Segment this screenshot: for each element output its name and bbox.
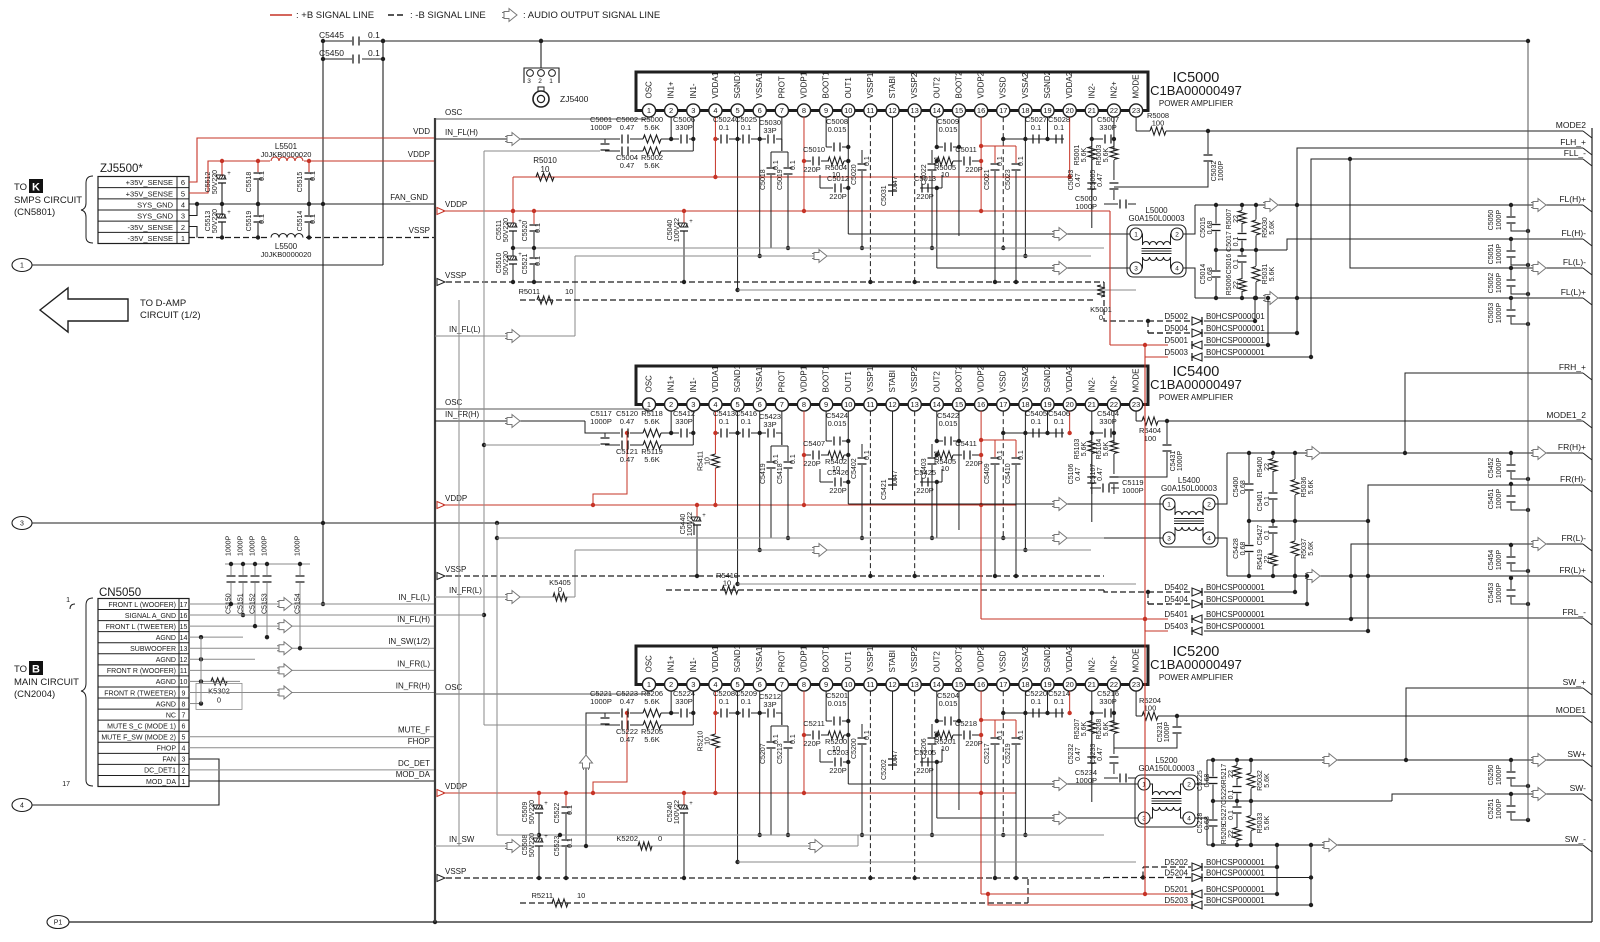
- svg-text:5.6K: 5.6K: [1103, 441, 1110, 456]
- svg-text:7: 7: [780, 106, 784, 115]
- svg-text:C5151: C5151: [238, 593, 245, 614]
- svg-text:5.6K: 5.6K: [1269, 266, 1276, 281]
- capacitor C5423 33P: [760, 432, 766, 434]
- svg-text:VDDP: VDDP: [445, 200, 467, 209]
- svg-text:TO: TO: [14, 664, 27, 675]
- svg-text:6: 6: [758, 106, 762, 115]
- capacitor C5021 0.1 vertical: [994, 146, 996, 163]
- svg-text:OSC: OSC: [645, 375, 654, 393]
- net MODE1: [1583, 716, 1592, 723]
- svg-text:C5050: C5050: [1488, 210, 1495, 231]
- svg-text:330P: 330P: [1099, 123, 1117, 132]
- svg-text:100: 100: [1144, 434, 1157, 443]
- svg-text:C5402: C5402: [851, 458, 858, 479]
- net SW-: [1392, 794, 1583, 801]
- capacitor C5207 0.1: [770, 726, 772, 741]
- pin 11 VSSP1 of IC5000: [864, 104, 877, 117]
- svg-text:220P: 220P: [965, 739, 983, 748]
- svg-text:VDDP1: VDDP1: [799, 645, 808, 672]
- capacitor C5216 330P: [1092, 712, 1103, 714]
- diode D5001 B0HCSP000001: [1192, 341, 1202, 349]
- capacitor C5428 0.68: [1248, 521, 1250, 545]
- svg-text:VDDA1: VDDA1: [711, 365, 720, 392]
- capacitor C5426 220P: [820, 481, 833, 483]
- svg-text:16: 16: [180, 613, 188, 620]
- svg-text:2: 2: [1187, 781, 1191, 788]
- capacitor C5119 1000P: [1090, 487, 1101, 489]
- wire L5000 input leads: [1124, 233, 1130, 235]
- wire VSSP dashed sub-rail: [437, 877, 1104, 879]
- svg-text:4: 4: [713, 400, 717, 409]
- pin 3 IN1- of IC5400: [687, 398, 700, 411]
- svg-text:VDDP1: VDDP1: [799, 365, 808, 392]
- pin 14 OUT2 of IC5400: [930, 398, 943, 411]
- capacitor C5053 1000P: [1509, 296, 1513, 300]
- capacitor C5018 0.1: [770, 152, 772, 167]
- svg-text:J0JKB0000020: J0JKB0000020: [261, 250, 312, 259]
- svg-text:6: 6: [758, 680, 762, 689]
- svg-text:MODE: MODE: [1132, 649, 1141, 673]
- svg-text:IN2-: IN2-: [1087, 377, 1096, 392]
- wire VSSP dashed into D5204: [1104, 877, 1191, 879]
- capacitor C5015 0.68: [1215, 205, 1217, 224]
- svg-text:14: 14: [933, 680, 941, 689]
- svg-text:R5209: R5209: [1221, 824, 1228, 845]
- svg-text:C5010: C5010: [803, 145, 825, 154]
- wire input low IN_SW: [435, 845, 858, 847]
- svg-text:9: 9: [824, 680, 828, 689]
- wire output rail mid: [1216, 249, 1287, 251]
- pin 1 OSC of IC5000: [642, 104, 655, 117]
- svg-text:C5152: C5152: [250, 593, 257, 614]
- capacitor bulk electrolytic pair: [512, 211, 514, 223]
- svg-text:2: 2: [538, 78, 542, 85]
- svg-text:SYS_GND: SYS_GND: [137, 212, 173, 221]
- svg-text:+: +: [689, 801, 693, 807]
- svg-text:4: 4: [713, 106, 717, 115]
- svg-text:OUT1: OUT1: [844, 77, 853, 99]
- svg-text:R5007: R5007: [1226, 209, 1233, 230]
- svg-text:5: 5: [735, 680, 739, 689]
- svg-text:C5052: C5052: [1488, 273, 1495, 294]
- capacitor C5214 0.1: [1025, 712, 1054, 714]
- svg-text:+: +: [702, 513, 706, 519]
- svg-text:3: 3: [691, 680, 695, 689]
- wire SYS_GND row3 stub: [189, 204, 197, 216]
- svg-text:5.6K: 5.6K: [644, 455, 659, 464]
- svg-text:VSSD: VSSD: [999, 370, 1008, 392]
- svg-text:C5217: C5217: [984, 743, 991, 764]
- svg-text:1000P: 1000P: [1496, 458, 1503, 479]
- svg-text:1000P: 1000P: [590, 697, 612, 706]
- svg-text:P1: P1: [54, 920, 63, 927]
- resistor R5007 22 capacitor C5017 0.1: [1241, 205, 1243, 210]
- svg-text:0.1: 0.1: [1233, 259, 1240, 269]
- svg-text:7: 7: [182, 712, 186, 719]
- svg-text:MODE1: MODE1: [1556, 705, 1587, 715]
- bus main vertical line: [434, 118, 436, 922]
- svg-text:0.1: 0.1: [864, 450, 871, 460]
- capacitor C5450 0.1: [323, 58, 352, 60]
- svg-text:5.6K: 5.6K: [1264, 773, 1271, 788]
- svg-text:C5419: C5419: [760, 463, 767, 484]
- capacitor C5024 0.1: [715, 138, 717, 140]
- svg-text:0.47: 0.47: [620, 417, 635, 426]
- svg-text:CIRCUIT (1/2): CIRCUIT (1/2): [140, 310, 201, 321]
- svg-text:0.1: 0.1: [997, 730, 1004, 740]
- svg-text:R5010: R5010: [533, 156, 557, 165]
- resistor K5405 0: [553, 593, 567, 601]
- svg-text:SIGNAL A_GND: SIGNAL A_GND: [125, 613, 176, 620]
- svg-text:VDDA2: VDDA2: [1065, 71, 1074, 98]
- svg-text:1: 1: [647, 680, 651, 689]
- capacitor C5000 1000P: [1104, 203, 1118, 205]
- svg-text:TO D-AMP: TO D-AMP: [140, 298, 186, 309]
- svg-text:1000P: 1000P: [295, 535, 302, 556]
- svg-text:C5519: C5519: [246, 211, 253, 232]
- svg-text:5.6K: 5.6K: [644, 417, 659, 426]
- svg-text:10: 10: [577, 891, 585, 900]
- wire OUT1 to transformer: [848, 783, 1124, 785]
- wire long vertical x459 gray: [458, 300, 460, 846]
- svg-text:50V220: 50V220: [503, 251, 510, 275]
- svg-text:NC: NC: [166, 712, 176, 719]
- pin 12 STABI of IC5000: [886, 104, 899, 117]
- svg-text:0.1: 0.1: [310, 214, 317, 224]
- svg-text:330P: 330P: [675, 123, 693, 132]
- svg-text:1: 1: [549, 78, 553, 85]
- svg-text:R5419: R5419: [1257, 549, 1264, 570]
- capacitor C5200 0.1 vertical: [861, 724, 863, 737]
- svg-text:C5032: C5032: [1211, 161, 1218, 182]
- svg-text:220P: 220P: [916, 766, 934, 775]
- svg-text:BOOT2: BOOT2: [954, 365, 963, 393]
- svg-text:B0HCSP000001: B0HCSP000001: [1206, 885, 1265, 894]
- svg-text:BOOT2: BOOT2: [954, 71, 963, 99]
- svg-text:22: 22: [1233, 215, 1240, 223]
- svg-text:0.68: 0.68: [1207, 267, 1214, 281]
- svg-text:0.1: 0.1: [741, 697, 751, 706]
- capacitor C5218 220P: [953, 734, 962, 736]
- wire dashed R5011 row: [520, 299, 1095, 301]
- svg-text:G0A150L00003: G0A150L00003: [1128, 214, 1185, 223]
- capacitor C5208 0.1: [715, 712, 717, 714]
- svg-text:C5426: C5426: [827, 468, 849, 477]
- svg-text:IN_FR(L): IN_FR(L): [449, 586, 482, 595]
- capacitor C5240 100V22: [683, 793, 685, 805]
- svg-text:10: 10: [704, 737, 711, 745]
- svg-text:5: 5: [735, 400, 739, 409]
- svg-text:C5515: C5515: [297, 172, 304, 193]
- svg-text:C5523: C5523: [554, 836, 561, 857]
- capacitor C5019 0.1: [787, 152, 789, 167]
- svg-text:C1BA00000497: C1BA00000497: [1150, 657, 1242, 672]
- svg-text:5.6K: 5.6K: [1103, 721, 1110, 736]
- svg-text:MUTE_F: MUTE_F: [398, 726, 430, 735]
- pin 2 of L5200: [1183, 778, 1195, 790]
- wire OUT2 to transformer: [937, 817, 1124, 819]
- svg-text:0.68: 0.68: [1240, 480, 1247, 494]
- pin 4 of L5200: [1183, 812, 1195, 824]
- pin 4 VDDA1 of IC5200: [709, 678, 722, 691]
- wire gray mid horizontals: [497, 537, 1104, 539]
- svg-text:FHOP: FHOP: [408, 737, 430, 746]
- svg-text:D5201: D5201: [1164, 885, 1188, 894]
- capacitor C5106 0.47 vertical: [1087, 476, 1096, 478]
- op-amp IC5400 power amplifier IC: [636, 366, 1148, 405]
- svg-text:D5002: D5002: [1164, 312, 1188, 321]
- svg-text:5: 5: [182, 735, 186, 742]
- svg-text:21: 21: [1088, 680, 1096, 689]
- svg-text:VSSP2: VSSP2: [910, 366, 919, 392]
- capacitor C5002 0.47: [435, 138, 585, 140]
- capacitor C5416 0.1: [738, 432, 741, 434]
- svg-text:VSSP: VSSP: [409, 226, 430, 235]
- svg-text:C5400: C5400: [1233, 477, 1240, 498]
- svg-text:C5107: C5107: [1090, 464, 1097, 485]
- svg-text:PROT: PROT: [777, 650, 786, 672]
- svg-text:IN_FR(L): IN_FR(L): [397, 659, 430, 668]
- net FLH_+: [1297, 148, 1583, 333]
- resistor R5001 5.6K vertical: [1091, 139, 1093, 146]
- svg-text:220P: 220P: [829, 192, 847, 201]
- wire red tee pin16: [981, 145, 1016, 147]
- svg-text:SMPS CIRCUIT: SMPS CIRCUIT: [14, 195, 82, 206]
- wire IN_FR(L) row11: [189, 669, 435, 671]
- svg-text:OSC: OSC: [445, 683, 463, 692]
- capacitor C5007 330P: [1092, 138, 1103, 140]
- brace left of ZJ5500: [81, 176, 93, 243]
- svg-text:OSC: OSC: [645, 81, 654, 99]
- svg-text:0.1: 0.1: [741, 417, 751, 426]
- svg-text:19: 19: [1043, 400, 1051, 409]
- capacitor C5402 0.1 vertical: [861, 444, 863, 457]
- pin 9 BOOT1 of IC5400: [820, 398, 833, 411]
- svg-text:C5509: C5509: [522, 802, 529, 823]
- svg-text:20: 20: [1065, 400, 1073, 409]
- wire OSC OSC2: [435, 693, 649, 695]
- pin 7 PROT of IC5000: [775, 104, 788, 117]
- capacitor C5403 0.1 vertical: [931, 444, 933, 457]
- capacitor C5228 0.68: [1212, 801, 1214, 819]
- resistor R5032 5.6K: [1250, 760, 1252, 773]
- diode D5401 B0HCSP000001: [1192, 615, 1202, 623]
- svg-text:C5219: C5219: [1005, 743, 1012, 764]
- svg-text:C5454: C5454: [1488, 550, 1495, 571]
- svg-text:1000P: 1000P: [1496, 244, 1503, 265]
- resistor R5211 10 on dashed line: [520, 902, 1028, 904]
- svg-text:AGND: AGND: [156, 701, 176, 708]
- svg-text:C5431: C5431: [1170, 451, 1177, 472]
- svg-text:18: 18: [1021, 400, 1029, 409]
- resistor R5205 5.6K: [643, 721, 661, 729]
- wire VSSP dashed sub-rail: [437, 575, 1104, 577]
- svg-text:R5411: R5411: [697, 451, 704, 471]
- wire +B red risers pins 4 8 16 20: [714, 117, 716, 177]
- inductor L5500 J0JKB0000020: [270, 232, 304, 242]
- resistor R5207 5.6K vertical: [1091, 713, 1093, 720]
- svg-text:C5453: C5453: [1488, 583, 1495, 604]
- svg-text:C5428: C5428: [1233, 538, 1240, 559]
- svg-text:VSSP1: VSSP1: [866, 72, 875, 98]
- svg-text:C5520: C5520: [522, 221, 529, 242]
- svg-text:50V220: 50V220: [529, 833, 536, 857]
- pin 19 SGND2 of IC5000: [1041, 104, 1054, 117]
- svg-text:FRONT R (TWEETER): FRONT R (TWEETER): [104, 690, 176, 697]
- svg-text:10: 10: [723, 579, 731, 588]
- svg-text:+35V_SENSE: +35V_SENSE: [126, 178, 173, 187]
- svg-text:6: 6: [182, 723, 186, 730]
- wire right border vertical: [1591, 128, 1593, 922]
- net SW_+: [1406, 688, 1583, 760]
- svg-text:MUTE S_C (MODE 1): MUTE S_C (MODE 1): [107, 723, 176, 730]
- capacitor C5011 220P: [953, 160, 962, 162]
- resistor R5204 100: [1135, 691, 1137, 716]
- svg-text:C5514: C5514: [297, 211, 304, 232]
- resistor R5031 5.6K: [1255, 250, 1257, 266]
- pin 1 of L5400: [1163, 498, 1175, 510]
- svg-text:7: 7: [780, 680, 784, 689]
- resistor R5410 10 on dashed line: [666, 589, 1104, 591]
- pin 15 BOOT2 of IC5200: [952, 678, 965, 691]
- capacitor C5453 1000P: [1509, 576, 1513, 580]
- svg-text:220P: 220P: [829, 766, 847, 775]
- svg-text:IN_FR(H): IN_FR(H): [396, 681, 431, 690]
- wire AGND vertical tie: [200, 637, 202, 703]
- svg-text:C5013: C5013: [914, 174, 936, 183]
- pin 5 SGND1 of IC5000: [731, 104, 744, 117]
- svg-text:C5513: C5513: [205, 211, 212, 232]
- svg-text:: AUDIO OUTPUT SIGNAL LINE: : AUDIO OUTPUT SIGNAL LINE: [523, 10, 660, 21]
- svg-text:0.47: 0.47: [892, 750, 899, 764]
- capacitor C5031 0.47 vertical: [892, 180, 894, 196]
- resistor R5004 10: [828, 157, 844, 165]
- net MODE2: [1583, 131, 1592, 138]
- net FRL_-: [1351, 617, 1583, 619]
- svg-text:22: 22: [1264, 556, 1271, 564]
- net FL(H)+ rail: [1195, 204, 1583, 206]
- net SW+ rail: [1207, 759, 1583, 761]
- pin 23 MODE of IC5200: [1129, 678, 1142, 691]
- svg-text:16: 16: [977, 400, 985, 409]
- svg-text:C5011: C5011: [955, 145, 977, 154]
- wire red riser x1110: [1016, 210, 1110, 212]
- legend -B signal line: [388, 14, 406, 16]
- svg-text:AGND: AGND: [156, 635, 176, 642]
- svg-text:C5225: C5225: [1197, 770, 1204, 791]
- wire collector line: [575, 255, 1091, 257]
- wire IN_FR(H) row9: [189, 691, 435, 693]
- svg-text:OUT1: OUT1: [844, 371, 853, 393]
- svg-text:FL(H)+: FL(H)+: [1559, 194, 1586, 204]
- svg-text:0.1: 0.1: [567, 805, 574, 815]
- wire +B red risers pins 4 8 16 20: [714, 691, 716, 734]
- pin 6 VSSA1 of IC5400: [753, 398, 766, 411]
- svg-text:0.1: 0.1: [1031, 123, 1041, 132]
- pin 15 BOOT2 of IC5400: [952, 398, 965, 411]
- svg-text:OUT2: OUT2: [932, 77, 941, 99]
- capacitor C5404 330P: [1092, 432, 1103, 434]
- svg-text:C5452: C5452: [1488, 458, 1495, 479]
- svg-text:FL(H)-: FL(H)-: [1561, 228, 1586, 238]
- wire FHOP row4: [189, 747, 435, 749]
- svg-text:R5032: R5032: [1257, 770, 1264, 791]
- svg-text:VDDA2: VDDA2: [1065, 645, 1074, 672]
- resistor R5118 5.6K: [643, 429, 661, 437]
- svg-text:0.1: 0.1: [567, 838, 574, 848]
- svg-text:C5205: C5205: [914, 748, 936, 757]
- diode D5003 B0HCSP000001: [1192, 353, 1202, 361]
- svg-text:C5250: C5250: [1488, 765, 1495, 786]
- svg-text:18: 18: [1021, 680, 1029, 689]
- svg-text:1: 1: [20, 263, 24, 270]
- svg-text:50V220: 50V220: [529, 800, 536, 824]
- svg-text:0.47: 0.47: [1075, 173, 1082, 187]
- svg-text:SW+: SW+: [1567, 749, 1586, 759]
- svg-text:IN_FR(H): IN_FR(H): [445, 410, 480, 419]
- svg-text:0.1: 0.1: [259, 214, 266, 224]
- svg-text:VSSA2: VSSA2: [1021, 646, 1030, 672]
- svg-text:FAN_GND: FAN_GND: [390, 193, 428, 202]
- capacitor C5424 0.015: [826, 440, 832, 442]
- svg-text:MODE1_2: MODE1_2: [1546, 410, 1586, 420]
- svg-text:C5409: C5409: [984, 463, 991, 484]
- svg-text:C5508: C5508: [522, 835, 529, 856]
- inductor L5501 J0JKB0000020: [270, 156, 304, 166]
- svg-text:1000P: 1000P: [1218, 161, 1225, 182]
- svg-text:0.015: 0.015: [939, 419, 958, 428]
- svg-text:9: 9: [182, 690, 186, 697]
- svg-text:C5218: C5218: [955, 719, 977, 728]
- svg-text:50V220: 50V220: [503, 218, 510, 242]
- svg-text:FLL_-: FLL_-: [1564, 148, 1586, 158]
- svg-text:FRONT L (WOOFER): FRONT L (WOOFER): [108, 602, 176, 609]
- pin 6 VSSA1 of IC5000: [753, 104, 766, 117]
- svg-text:0.47: 0.47: [1097, 467, 1104, 481]
- resistor R5000 5.6K: [643, 135, 661, 143]
- svg-text:B0HCSP000001: B0HCSP000001: [1206, 869, 1265, 878]
- svg-text:IN1-: IN1-: [689, 657, 698, 672]
- svg-text:21: 21: [1088, 106, 1096, 115]
- svg-text:C5018: C5018: [760, 169, 767, 190]
- svg-text:1000P: 1000P: [226, 535, 233, 556]
- svg-text:1: 1: [647, 106, 651, 115]
- svg-text:0: 0: [1099, 313, 1103, 322]
- wire VSSP dashed rail left: [189, 237, 435, 239]
- svg-text:16: 16: [977, 680, 985, 689]
- svg-text:MUTE F_SW (MODE 2): MUTE F_SW (MODE 2): [101, 735, 176, 742]
- resistor R5400 22 capacitor C5401 0.1: [1272, 453, 1274, 458]
- svg-text:: -B SIGNAL LINE: : -B SIGNAL LINE: [410, 10, 486, 21]
- capacitor C5008 0.015: [826, 146, 832, 148]
- pin 17 VSSD of IC5400: [997, 398, 1010, 411]
- capacitor C5406 0.1: [1025, 432, 1054, 434]
- connector ZJ5400 chassis lug: [540, 41, 542, 68]
- svg-text:1: 1: [181, 234, 185, 243]
- capacitor C5223 0.47: [586, 713, 620, 846]
- svg-text:0.47: 0.47: [620, 697, 635, 706]
- pin 3 of L5400: [1163, 532, 1175, 544]
- svg-text:-35V_SENSE: -35V_SENSE: [128, 234, 173, 243]
- capacitor C5400 0.68: [1248, 453, 1250, 483]
- svg-text:B: B: [32, 664, 40, 676]
- capacitor C5213 0.1: [787, 726, 789, 741]
- pin 4 VDDA1 of IC5400: [709, 398, 722, 411]
- resistor R5104 5.6K vertical: [1113, 433, 1115, 440]
- svg-text:100V22: 100V22: [674, 800, 681, 824]
- svg-text:330P: 330P: [675, 697, 693, 706]
- capacitor C5121 0.47: [605, 444, 620, 446]
